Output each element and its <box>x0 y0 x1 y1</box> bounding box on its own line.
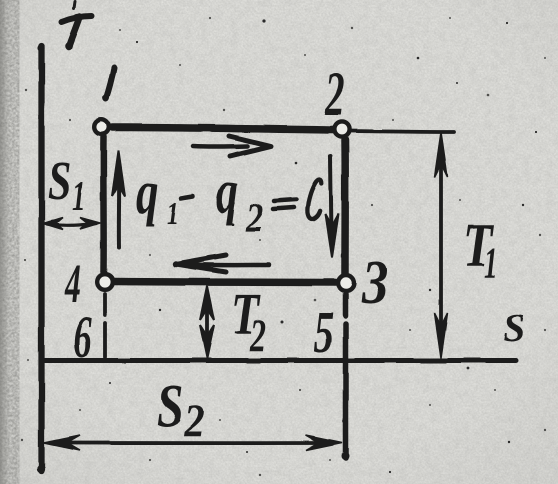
svg-text:1: 1 <box>484 239 497 287</box>
svg-text:S: S <box>503 305 525 350</box>
svg-text:1: 1 <box>167 197 179 232</box>
svg-text:2: 2 <box>183 395 205 447</box>
svg-text:5: 5 <box>314 299 334 365</box>
svg-text:2: 2 <box>249 309 266 361</box>
svg-text:6: 6 <box>73 303 92 370</box>
svg-text:2: 2 <box>245 195 263 240</box>
svg-text:S: S <box>157 372 184 441</box>
svg-text:1: 1 <box>72 173 86 219</box>
svg-text:2: 2 <box>324 61 344 129</box>
svg-text:S: S <box>48 151 71 212</box>
svg-text:q: q <box>216 156 238 226</box>
svg-text:q: q <box>136 157 158 227</box>
svg-text:3: 3 <box>361 249 388 317</box>
